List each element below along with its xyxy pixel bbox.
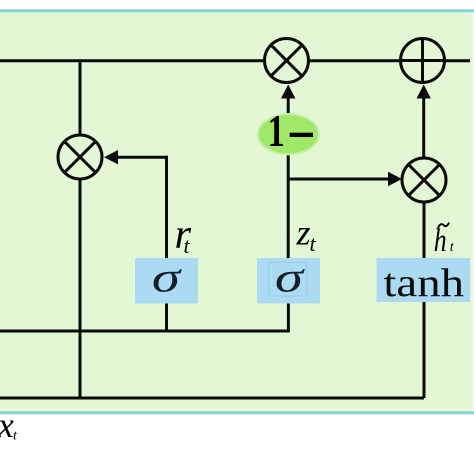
- svg-text:σ: σ: [275, 253, 305, 301]
- wire: bottom horizontal into tanh: [0, 397, 424, 400]
- label z_t: [296, 212, 317, 256]
- wire: top horizontal h(t-1) to h(t): [0, 59, 470, 62]
- label h-tilde_t: [434, 223, 455, 258]
- svg-text:σ: σ: [152, 253, 182, 301]
- wire: stub up into sigma z box: [287, 303, 290, 332]
- wire: branch to right multiply: [288, 178, 394, 181]
- svg-text:h: h: [434, 223, 447, 258]
- wire: sigma r output up: [165, 156, 168, 258]
- svg-text:x: x: [0, 405, 14, 445]
- label r_t: [175, 211, 192, 258]
- arrowhead into left multiply: [104, 150, 118, 164]
- multiply node right: [402, 158, 446, 202]
- multiply node left: [58, 135, 102, 179]
- pale right edge: [472, 12, 474, 411]
- sigma z box: [257, 253, 320, 304]
- 1-minus ellipse: [258, 105, 319, 156]
- arrowhead into plus node: [417, 85, 431, 99]
- wire: tanh top to right multiply: [423, 202, 426, 258]
- wire: horizontal into left multiply: [112, 156, 168, 159]
- wire: right vertical from bottom wire up to tanh: [423, 302, 426, 398]
- svg-text:z: z: [296, 212, 311, 252]
- svg-text:t: t: [184, 233, 191, 258]
- wire: stub up into sigma r box: [165, 303, 168, 331]
- svg-text:t: t: [310, 231, 317, 256]
- svg-text:1: 1: [268, 105, 285, 156]
- wire: left vertical from top wire down to bottom wire: [79, 61, 82, 398]
- cyan bottom border: [0, 411, 474, 414]
- arrowhead into right multiply: [388, 172, 402, 186]
- wire: right multiply up to plus node: [422, 92, 425, 158]
- multiply node top: [265, 39, 309, 83]
- sigma r box: [135, 253, 198, 304]
- wire: sigma z output up through 1-minus to top multiply: [287, 92, 290, 258]
- add node: [401, 39, 445, 83]
- arrowhead into top multiply: [281, 85, 295, 99]
- tanh box: [377, 258, 471, 305]
- cyan top border: [0, 9, 474, 12]
- label x_t: [0, 405, 18, 445]
- svg-text:tanh: tanh: [383, 261, 464, 305]
- wire: mid horizontal x(t) input: [0, 330, 288, 333]
